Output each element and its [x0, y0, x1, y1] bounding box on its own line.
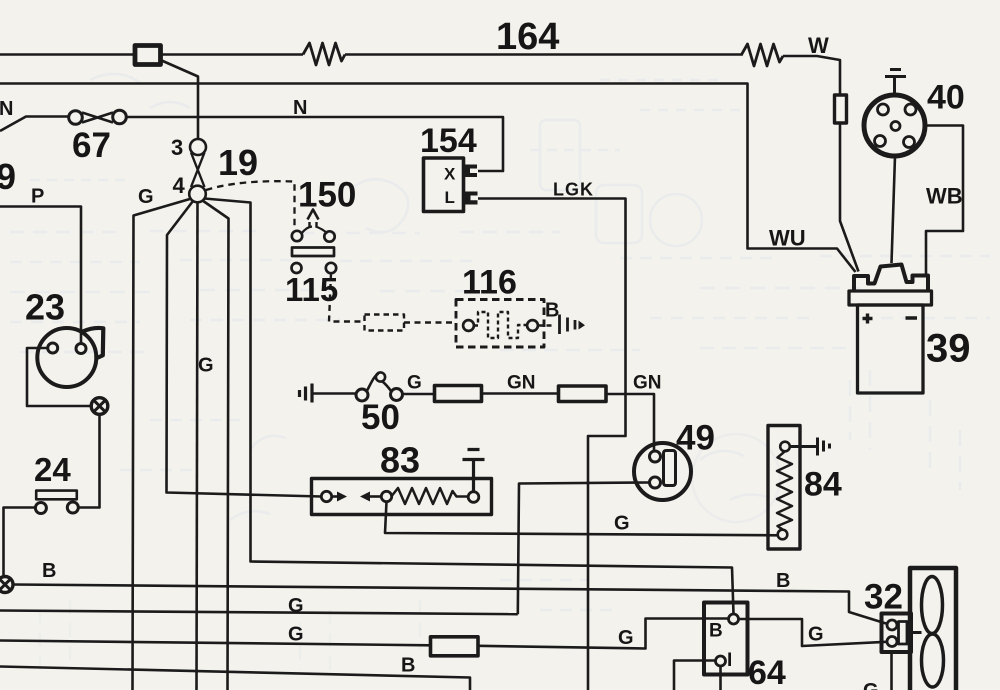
wire ground to switch 50 — [314, 392, 357, 395]
svg-text:G: G — [288, 624, 304, 646]
svg-text:40: 40 — [927, 79, 965, 117]
svg-text:23: 23 — [25, 287, 65, 328]
coil 39 polarity marks — [863, 314, 918, 324]
svg-text:W: W — [808, 33, 829, 58]
wire 49 to G lower 1 — [518, 483, 650, 615]
fuse on W wire — [835, 95, 847, 123]
svg-text:115: 115 — [285, 271, 338, 308]
svg-text:G: G — [808, 624, 824, 646]
fan wire G4 from node 4 — [203, 201, 229, 690]
svg-text:116: 116 — [462, 264, 517, 302]
wire P — [0, 207, 81, 344]
64 terminal I — [716, 656, 726, 666]
svg-text:B: B — [401, 655, 415, 677]
svg-text:B: B — [709, 621, 723, 642]
svg-text:32: 32 — [864, 578, 903, 617]
wire top feed right — [345, 53, 741, 56]
connector 154 terminal X — [464, 165, 478, 178]
svg-text:24: 24 — [34, 451, 71, 488]
wire distributor to coil — [892, 156, 896, 263]
switch 50 contacts and loop — [356, 389, 368, 401]
svg-text:G: G — [863, 680, 879, 690]
fan wire G2 from node 4 to 83 — [167, 201, 322, 497]
dashed wire 115 to 116 — [329, 274, 364, 322]
switch 150 arrow — [308, 210, 319, 220]
ground (84) — [790, 438, 830, 456]
wire WB — [925, 126, 963, 277]
dashed wire to 116 — [404, 321, 456, 323]
horn 23 terminals — [48, 343, 58, 353]
distributor 40 — [864, 95, 925, 156]
node 19 circle 4 — [189, 186, 206, 203]
wire feed 2 to WU — [0, 84, 856, 273]
wire 83 to G line — [385, 502, 778, 536]
svg-text:G: G — [288, 595, 304, 617]
svg-text:39: 39 — [926, 327, 971, 371]
svg-text:WB: WB — [926, 184, 963, 209]
snap connector (horn) — [91, 398, 108, 415]
connector (square) on top feed — [135, 46, 161, 65]
wire top feed left — [0, 53, 134, 56]
svg-text:150: 150 — [298, 176, 356, 215]
resistor 164 — [303, 43, 345, 65]
svg-text:B: B — [42, 560, 56, 582]
fan wire G5 from node 4 to 64 — [205, 199, 734, 615]
wire horn to snap connector — [27, 348, 91, 406]
svg-text:9: 9 — [0, 156, 16, 197]
svg-text:84: 84 — [804, 466, 842, 504]
wire N — [0, 117, 69, 132]
wire top feed middle — [161, 53, 304, 56]
wire W down to fuse — [783, 56, 840, 95]
snap connector (B line) — [0, 577, 13, 593]
connector 154 terminal L — [464, 192, 478, 205]
switch 150 dashed link from node 19 — [206, 181, 295, 228]
svg-text:50: 50 — [361, 398, 400, 437]
ignition switch 49 — [634, 443, 691, 500]
horn push 24 bar — [36, 491, 77, 500]
node 19 circle 3 — [190, 139, 206, 155]
wire connector to horn push — [78, 415, 99, 508]
wire square to node 19 — [161, 60, 199, 139]
svg-text:64: 64 — [748, 654, 786, 690]
node 19 bowtie — [191, 153, 205, 188]
fuse 67 — [69, 110, 127, 124]
svg-text:G: G — [614, 513, 630, 535]
connector 154 box — [424, 158, 464, 212]
svg-text:164: 164 — [496, 16, 559, 58]
wire W fuse to coil — [840, 123, 859, 272]
wire GN — [482, 392, 559, 395]
dashed connector — [365, 315, 405, 331]
wire 64 to motor 32 — [739, 619, 887, 646]
svg-text:G: G — [407, 373, 422, 394]
coil 39 cap — [854, 265, 928, 291]
flasher 116 dashed box — [456, 300, 544, 348]
gauge 83 box — [312, 479, 492, 515]
wires below 64 — [674, 661, 721, 690]
coil 39 body — [858, 305, 924, 393]
horn 23 body — [37, 328, 96, 387]
svg-text:G: G — [138, 186, 154, 208]
cable connector GN 1 — [435, 386, 482, 402]
wire GN to ignition switch 49 — [606, 394, 654, 451]
wire B bottom — [0, 667, 470, 690]
wire N to 154 — [126, 117, 503, 171]
svg-text:67: 67 — [72, 126, 111, 165]
flasher 116 coil — [474, 312, 527, 338]
svg-text:X: X — [444, 165, 456, 184]
svg-text:B: B — [776, 570, 790, 592]
64 terminal B — [729, 614, 739, 624]
resistor 84 element — [780, 442, 790, 452]
svg-text:N: N — [293, 97, 307, 119]
svg-text:G: G — [618, 627, 634, 649]
dashed wire B out of 116 — [538, 324, 552, 327]
svg-text:LGK: LGK — [553, 180, 594, 200]
wire LGK — [478, 199, 626, 690]
svg-text:49: 49 — [676, 419, 715, 458]
fan blades — [922, 577, 943, 634]
svg-text:I: I — [727, 650, 732, 671]
svg-text:154: 154 — [420, 122, 477, 160]
switch 150 upper contacts — [292, 231, 302, 241]
svg-text:N: N — [0, 98, 13, 120]
resistor W — [741, 44, 783, 66]
switch 150 lower contacts — [292, 263, 302, 273]
svg-text:WU: WU — [769, 226, 806, 251]
switch 150 bar — [292, 248, 334, 257]
wire below 32 — [890, 652, 893, 690]
wire G lower 2 left — [0, 641, 431, 646]
wire G lower 1 — [0, 611, 518, 615]
motor 32 connector box — [882, 614, 912, 653]
svg-text:GN: GN — [633, 373, 662, 394]
fan wire G3 from node 4 — [197, 202, 198, 690]
wire switch 50 to cable — [403, 393, 435, 396]
fuel pump 64 box — [704, 603, 748, 675]
horn 23 flare — [82, 328, 103, 359]
wire B — [13, 585, 886, 624]
svg-text:3: 3 — [171, 135, 183, 160]
ground (83) — [463, 450, 485, 492]
wire horn push to B connector — [4, 508, 36, 577]
svg-text:B: B — [545, 300, 559, 322]
ground (distributor 40) — [885, 70, 906, 96]
svg-text:83: 83 — [380, 440, 420, 481]
flasher 116 contacts — [463, 320, 474, 331]
coil 39 collar — [849, 291, 932, 305]
gauge 83 resistor — [392, 488, 468, 504]
cable connector on G lower 2 — [431, 637, 479, 656]
wire G lower 2 to 64 — [478, 619, 729, 649]
cable connector GN 2 — [559, 386, 607, 402]
svg-text:GN: GN — [507, 373, 536, 394]
gauge 83 input contact and arrows — [321, 491, 331, 501]
svg-text:P: P — [31, 186, 44, 208]
horn push 24 terminals — [35, 503, 46, 514]
svg-text:4: 4 — [173, 173, 186, 198]
svg-text:L: L — [445, 188, 455, 207]
fan blower body — [910, 568, 956, 690]
ground (switch 50) — [300, 384, 313, 403]
svg-text:G: G — [198, 355, 214, 377]
resistor 84 box — [768, 426, 800, 550]
svg-text:19: 19 — [218, 142, 258, 183]
fan wire G1 from node 4 — [133, 199, 192, 690]
